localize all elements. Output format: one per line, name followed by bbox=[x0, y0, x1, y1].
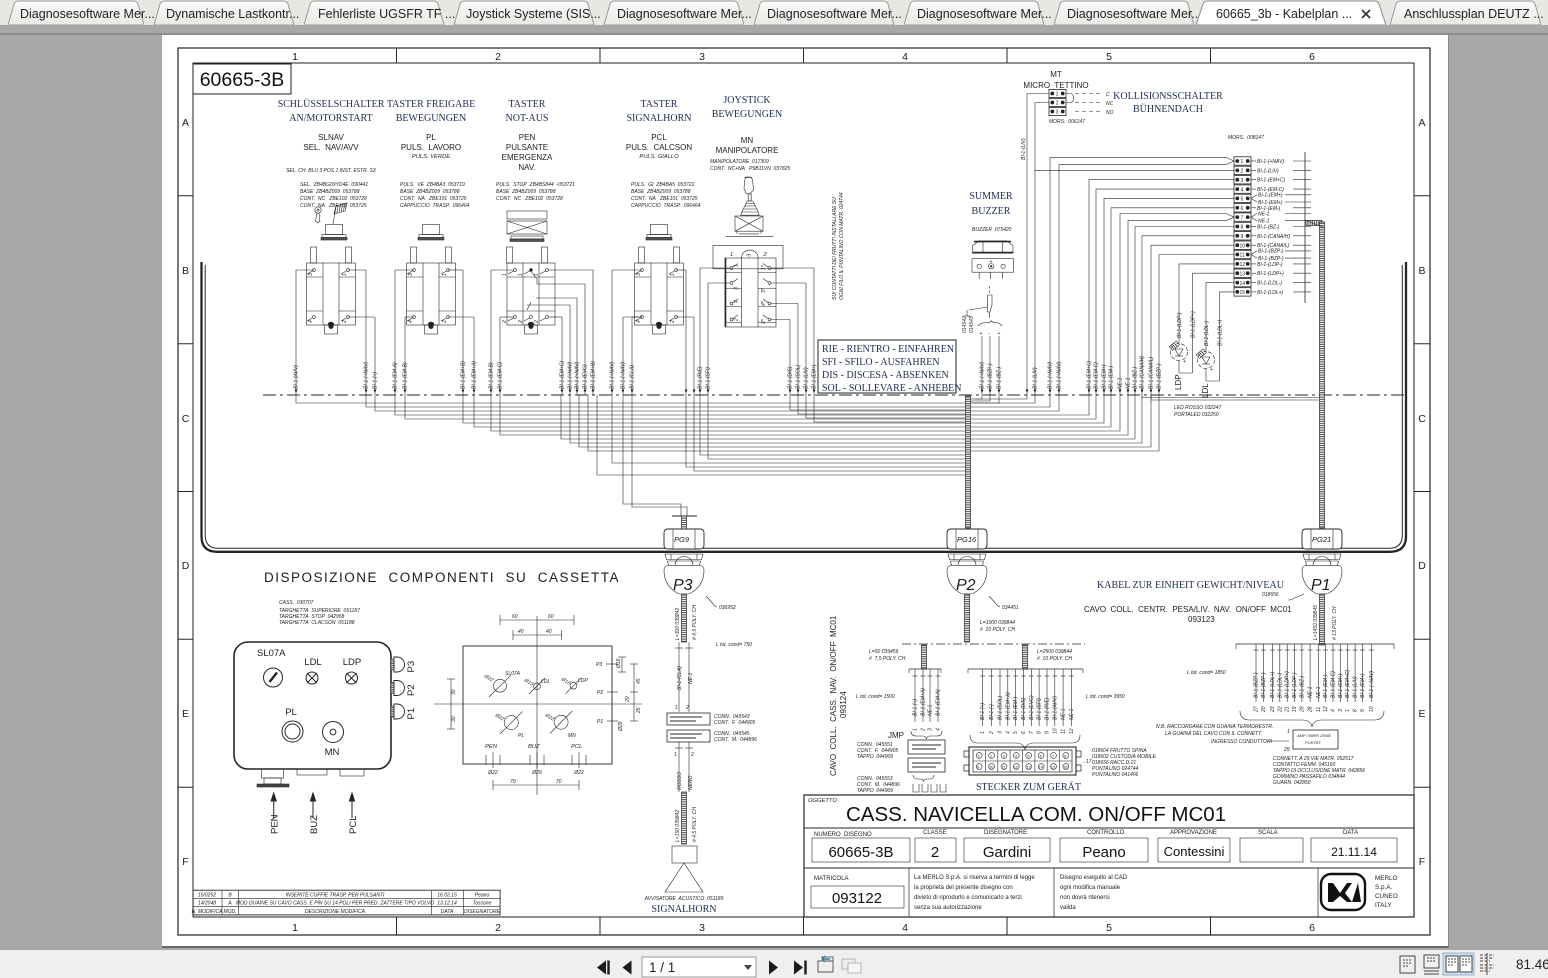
svg-text:BI-1-(EM+C): BI-1-(EM+C) bbox=[1345, 669, 1351, 698]
svg-text:2: 2 bbox=[690, 752, 694, 758]
svg-text:12: 12 bbox=[1323, 706, 1329, 712]
svg-text:2: 2 bbox=[342, 320, 348, 324]
revision table bbox=[193, 890, 500, 915]
svg-text:L tot. cond= 1850: L tot. cond= 1850 bbox=[1187, 670, 1226, 676]
svg-text:CAPPUCCIO TRASP. 096464: CAPPUCCIO TRASP. 096464 bbox=[631, 203, 701, 209]
svg-text:DESCRIZIONE MODIFICA: DESCRIZIONE MODIFICA bbox=[305, 909, 366, 915]
svg-text:PCL: PCL bbox=[348, 816, 359, 834]
svg-text:valida: valida bbox=[1060, 905, 1076, 911]
svg-text:BI-1-(+NAV): BI-1-(+NAV) bbox=[1257, 159, 1284, 165]
svg-text:NE-1: NE-1 bbox=[928, 704, 934, 716]
svg-text:1: 1 bbox=[442, 273, 448, 276]
svg-text:BI-1-(BZ-): BI-1-(BZ-) bbox=[1257, 225, 1280, 231]
svg-text:1: 1 bbox=[674, 752, 677, 758]
PG16 cable bbox=[966, 396, 971, 528]
next page button bbox=[769, 961, 778, 975]
svg-text:F: F bbox=[1419, 856, 1425, 868]
tab 2 bbox=[154, 1, 294, 25]
svg-text:1: 1 bbox=[978, 753, 981, 758]
svg-text:MORS. 006147: MORS. 006147 bbox=[1049, 119, 1085, 125]
svg-text:2: 2 bbox=[921, 728, 927, 732]
svg-text:15/0252: 15/0252 bbox=[198, 892, 216, 898]
svg-text:BI-1-(BZ-): BI-1-(BZ-) bbox=[1133, 366, 1139, 389]
svg-text:P1: P1 bbox=[1311, 577, 1331, 594]
svg-text:10: 10 bbox=[1052, 728, 1058, 734]
svg-text:BI-1-(LIV): BI-1-(LIV) bbox=[1021, 138, 1027, 160]
bottom tabs bbox=[257, 769, 364, 787]
P3 wire pair bbox=[675, 642, 693, 712]
svg-text:NOT-AUS: NOT-AUS bbox=[506, 113, 549, 124]
legend box RIE/SFI/DIS/SOL bbox=[818, 340, 961, 394]
svg-text:BI-1-(BZP-): BI-1-(BZP-) bbox=[988, 363, 994, 389]
svg-text:1: 1 bbox=[1345, 709, 1351, 712]
key switch S1 SLNAV header bbox=[278, 98, 385, 209]
svg-text:MOD GUAINE SU CAVO CASS. E PIN: MOD GUAINE SU CAVO CASS. E PIN SU 14 POL… bbox=[236, 901, 434, 907]
svg-text:BI-1-(EM-B): BI-1-(EM-B) bbox=[489, 362, 495, 389]
svg-text:Joystick Systeme (SIS...: Joystick Systeme (SIS... bbox=[466, 7, 601, 21]
P2 junction bbox=[902, 643, 1085, 645]
svg-text:D: D bbox=[182, 560, 190, 572]
svg-text:4: 4 bbox=[902, 51, 908, 63]
svg-text:Peano: Peano bbox=[475, 892, 490, 898]
svg-text:LED ROSSO 032247: LED ROSSO 032247 bbox=[1174, 405, 1221, 411]
svg-text:SEL. CH. BLU 3 POS 1 INST. EST: SEL. CH. BLU 3 POS 1 INST. ESTR. SX bbox=[286, 168, 377, 174]
wire to PG9 bbox=[693, 317, 695, 395]
svg-text:KABEL ZUR EINHEIT GEWICHT/NIVE: KABEL ZUR EINHEIT GEWICHT/NIVEAU bbox=[1097, 580, 1285, 591]
svg-text:2: 2 bbox=[442, 320, 448, 324]
svg-text:4: 4 bbox=[734, 300, 740, 303]
svg-text:PULS. VE ZB4BA3 053719: PULS. VE ZB4BA3 053719 bbox=[400, 182, 465, 188]
svg-text:BI-1-(EM+C): BI-1-(EM+C) bbox=[1087, 360, 1093, 389]
svg-text:Ø22: Ø22 bbox=[543, 712, 555, 723]
svg-text:P3: P3 bbox=[406, 661, 417, 673]
svg-text:20: 20 bbox=[1261, 706, 1267, 713]
svg-text:CASS. 030707: CASS. 030707 bbox=[279, 600, 314, 606]
svg-text:1: 1 bbox=[1287, 729, 1290, 735]
emergency stop S3 PEN header bbox=[496, 99, 575, 202]
svg-text:1: 1 bbox=[670, 273, 676, 276]
svg-text:4: 4 bbox=[1241, 187, 1244, 193]
active tab 60665_3b bbox=[1196, 1, 1386, 25]
JMP connector labels bbox=[908, 740, 945, 772]
svg-text:BI-1-(LDL+): BI-1-(LDL+) bbox=[1270, 671, 1276, 698]
svg-text:BI-1-(LDP-): BI-1-(LDP-) bbox=[1257, 262, 1283, 268]
svg-text:Ø29: Ø29 bbox=[531, 770, 542, 776]
svg-text:4: 4 bbox=[1015, 753, 1018, 758]
sheet border frame outer bbox=[178, 48, 1430, 935]
title block bbox=[804, 795, 1414, 917]
svg-text:APPROVAZIONE: APPROVAZIONE bbox=[1170, 830, 1217, 836]
svg-text:JMP: JMP bbox=[888, 731, 904, 740]
wire to PG9 bbox=[685, 270, 687, 395]
svg-text:29: 29 bbox=[1299, 706, 1305, 713]
svg-text:1: 1 bbox=[913, 728, 919, 731]
wire MT pin1 down BI-1-(LIV) bbox=[1027, 94, 1049, 396]
svg-text:NAV.: NAV. bbox=[518, 163, 535, 172]
svg-text:BI-1-(EM+): BI-1-(EM+) bbox=[1102, 364, 1108, 389]
routing elbows below cut line bbox=[296, 395, 1319, 516]
joystick wires left bbox=[699, 268, 701, 395]
S1 button bbox=[321, 225, 347, 241]
svg-text:BI-1-(DIS): BI-1-(DIS) bbox=[1021, 697, 1027, 720]
PG9 cable tail bbox=[672, 516, 697, 529]
svg-text:Ø22: Ø22 bbox=[487, 770, 498, 776]
LED wires to strip rows 12-15 bbox=[1179, 264, 1234, 349]
svg-text:L=1450 039845: L=1450 039845 bbox=[1313, 605, 1319, 640]
pushbutton contact block S2 bbox=[407, 247, 456, 325]
svg-text:60665-3B: 60665-3B bbox=[828, 844, 893, 861]
svg-text:CONTROLLO: CONTROLLO bbox=[1087, 830, 1125, 836]
svg-text:2: 2 bbox=[495, 51, 501, 63]
buzzer symbol bbox=[972, 241, 1014, 279]
svg-text:3: 3 bbox=[747, 253, 753, 257]
svg-text:70: 70 bbox=[556, 779, 562, 785]
svg-text:4: 4 bbox=[408, 320, 414, 323]
svg-text:P2: P2 bbox=[597, 690, 603, 696]
svg-text:27: 27 bbox=[1254, 706, 1260, 713]
svg-text:LA GUAINA DEL CAVO CON IL CONN: LA GUAINA DEL CAVO CON IL CONNETT. bbox=[1165, 731, 1262, 737]
svg-text:BUZ: BUZ bbox=[528, 744, 540, 750]
svg-text:10: 10 bbox=[1369, 706, 1375, 712]
svg-text:PG21: PG21 bbox=[1312, 535, 1331, 544]
joystick MN header bbox=[710, 95, 790, 172]
svg-text:BI-1-(CANA/H): BI-1-(CANA/H) bbox=[1257, 234, 1290, 240]
svg-text:3: 3 bbox=[308, 273, 314, 276]
svg-text:N. MODIFICA: N. MODIFICA bbox=[192, 909, 223, 915]
svg-text:4: 4 bbox=[1005, 731, 1011, 734]
wire BI-1-(EM-B) bbox=[404, 317, 406, 395]
svg-text:25: 25 bbox=[636, 707, 642, 714]
svg-text:28: 28 bbox=[1308, 706, 1314, 713]
svg-text:TASTER: TASTER bbox=[509, 99, 546, 110]
svg-text:13: 13 bbox=[1026, 764, 1031, 769]
svg-text:6: 6 bbox=[1021, 731, 1027, 734]
svg-text:PULS. CALCSON: PULS. CALCSON bbox=[626, 143, 692, 152]
svg-text:BI-1-(LDL+): BI-1-(LDL+) bbox=[1218, 319, 1224, 346]
svg-text:11: 11 bbox=[1240, 253, 1245, 259]
svg-text:5: 5 bbox=[1106, 922, 1112, 934]
svg-text:→17: →17 bbox=[1081, 759, 1092, 765]
P3 connector labels bbox=[667, 713, 710, 742]
svg-text:2: 2 bbox=[931, 844, 939, 861]
svg-text:034451: 034451 bbox=[1002, 605, 1019, 611]
svg-text:# 10 POLY. CH: # 10 POLY. CH bbox=[980, 627, 1015, 633]
svg-text:CAVO COLL. CENTR. PESA/LIV.: CAVO COLL. CENTR. PESA/LIV. NAV. ON/OFF … bbox=[1084, 605, 1292, 614]
svg-text:L=150 039842: L=150 039842 bbox=[675, 810, 681, 842]
svg-text:CASS. NAVICELLA COM. ON/OFF MC: CASS. NAVICELLA COM. ON/OFF MC01 bbox=[846, 803, 1226, 826]
svg-text:2: 2 bbox=[502, 320, 508, 324]
svg-text:DATA: DATA bbox=[1343, 830, 1358, 836]
svg-text:P2: P2 bbox=[406, 684, 417, 696]
wire MT pin2 down bbox=[1035, 103, 1049, 171]
bottom toolbar bbox=[0, 950, 1548, 978]
svg-text:PUNTALINO 041406: PUNTALINO 041406 bbox=[1092, 772, 1139, 778]
wire BI-1-(CLA) bbox=[631, 317, 633, 395]
svg-text:60665-3B: 60665-3B bbox=[200, 69, 285, 91]
svg-text:C: C bbox=[182, 413, 190, 425]
svg-text:BI-1-(EM+): BI-1-(EM+) bbox=[1360, 673, 1366, 698]
svg-text:P1: P1 bbox=[406, 708, 417, 720]
svg-text:PCL: PCL bbox=[651, 133, 667, 142]
tab 8 bbox=[1054, 1, 1194, 25]
svg-text:2: 2 bbox=[989, 731, 995, 735]
svg-text:TAPPO 044909: TAPPO 044909 bbox=[857, 788, 893, 794]
next view icon (disabled) bbox=[842, 959, 861, 973]
svg-text:16: 16 bbox=[1063, 764, 1068, 769]
stecker branch 12 wires bbox=[968, 669, 1083, 726]
wire BI-1-(EM+B) bbox=[462, 270, 464, 395]
svg-text:23: 23 bbox=[1270, 706, 1276, 713]
field labels bbox=[814, 830, 1358, 882]
svg-text:SFI - SFILO - AUSFAHREN: SFI - SFILO - AUSFAHREN bbox=[822, 357, 940, 368]
svg-text:BI-1-(+NAV): BI-1-(+NAV) bbox=[575, 362, 581, 389]
svg-text:SUI CONTATTI DEI FRUTTI INSTAL: SUI CONTATTI DEI FRUTTI INSTALLARE SU bbox=[832, 197, 838, 300]
svg-text:P3: P3 bbox=[673, 577, 693, 594]
svg-text:Diagnosesoftware Mer...: Diagnosesoftware Mer... bbox=[20, 7, 155, 21]
svg-text:BUZ: BUZ bbox=[309, 815, 320, 834]
svg-text:BEWEGUNGEN: BEWEGUNGEN bbox=[396, 113, 467, 124]
P3 cable bbox=[682, 594, 687, 642]
svg-text:CONT. NA ZBE101 053725: CONT. NA ZBE101 053725 bbox=[300, 203, 367, 209]
svg-text:OGGETTO: OGGETTO bbox=[808, 798, 837, 804]
svg-text:BI-1-(EM-A): BI-1-(EM-A) bbox=[936, 689, 942, 716]
tab 6 bbox=[754, 1, 894, 25]
svg-text:9: 9 bbox=[977, 764, 980, 769]
svg-text:LDP: LDP bbox=[343, 657, 361, 668]
svg-text:BASE ZB4BZ009 053788: BASE ZB4BZ009 053788 bbox=[631, 189, 691, 195]
svg-text:BI-1-(EM-B): BI-1-(EM-B) bbox=[403, 362, 409, 389]
svg-text:BI-1-(LDL-): BI-1-(LDL-) bbox=[1204, 321, 1210, 346]
wire BI-1-(EM-A) bbox=[394, 270, 396, 395]
svg-text:4: 4 bbox=[636, 320, 642, 323]
svg-text:81.46: 81.46 bbox=[1516, 957, 1548, 972]
svg-text:Diagnosesoftware Mer...: Diagnosesoftware Mer... bbox=[917, 7, 1052, 21]
svg-text:036952: 036952 bbox=[719, 605, 736, 611]
wire BI-1-(+NAV) bbox=[569, 305, 571, 395]
svg-text:BI-1-(RIE): BI-1-(RIE) bbox=[1045, 697, 1051, 720]
svg-text:C: C bbox=[1106, 92, 1110, 98]
svg-text:BI-1-(BZP-): BI-1-(BZP-) bbox=[1258, 249, 1284, 255]
frame row letters bbox=[182, 117, 1427, 868]
svg-text:PL: PL bbox=[426, 133, 436, 142]
svg-text:NUMERO DISEGNO: NUMERO DISEGNO bbox=[814, 832, 872, 838]
svg-text:PULSANTE: PULSANTE bbox=[506, 143, 548, 152]
P1 fan 16 wires bbox=[1236, 644, 1394, 702]
svg-text:Gardini: Gardini bbox=[983, 844, 1031, 861]
svg-text:2: 2 bbox=[518, 320, 524, 324]
mushroom button bbox=[507, 211, 547, 242]
wire BI-1-(EM+B) bbox=[592, 270, 594, 395]
svg-text:BI-1-(CLA): BI-1-(CLA) bbox=[677, 666, 683, 690]
svg-text:La MERLO S.p.A. si riserva a t: La MERLO S.p.A. si riserva a termini di … bbox=[914, 875, 1035, 881]
svg-text:DIS - DISCESA - ABSENKEN: DIS - DISCESA - ABSENKEN bbox=[822, 370, 949, 381]
browser tab bar bbox=[0, 0, 1548, 25]
svg-text:# 7,5 POLY. CH: # 7,5 POLY. CH bbox=[869, 656, 906, 662]
svg-text:BI-1-(+NAV): BI-1-(+NAV) bbox=[621, 362, 627, 389]
svg-text:A: A bbox=[182, 117, 189, 129]
svg-text:BI-1-(LIV): BI-1-(LIV) bbox=[1353, 676, 1359, 698]
svg-text:014543: 014543 bbox=[969, 316, 975, 333]
svg-text:BI-1-(BZ-): BI-1-(BZ-) bbox=[997, 366, 1003, 389]
joystick handle symbol bbox=[726, 177, 773, 237]
svg-text:14/2048: 14/2048 bbox=[198, 901, 216, 907]
svg-text:BI-1-(LDL+): BI-1-(LDL+) bbox=[1257, 290, 1284, 296]
svg-text:1: 1 bbox=[734, 264, 740, 267]
svg-text:LDL: LDL bbox=[541, 679, 550, 685]
svg-text:9: 9 bbox=[1241, 234, 1244, 240]
svg-text:21.11.14: 21.11.14 bbox=[1331, 845, 1377, 859]
svg-text:MN: MN bbox=[568, 733, 576, 739]
svg-text:BUZZER 075420: BUZZER 075420 bbox=[972, 227, 1012, 233]
svg-text:1: 1 bbox=[1056, 92, 1059, 98]
svg-text:BI-1-(+NAV): BI-1-(+NAV) bbox=[980, 362, 986, 389]
svg-text:BI-1-(LIV): BI-1-(LIV) bbox=[804, 367, 810, 389]
svg-text:1: 1 bbox=[675, 705, 678, 711]
svg-text:CONT. NC+NA P9B11VN 037825: CONT. NC+NA P9B11VN 037825 bbox=[710, 166, 790, 172]
svg-text:BI-1-(LDL-): BI-1-(LDL-) bbox=[1257, 281, 1282, 287]
svg-text:9: 9 bbox=[1045, 731, 1051, 734]
svg-text:Disegno eseguito al CAD: Disegno eseguito al CAD bbox=[1060, 875, 1128, 881]
svg-text:NE-1: NE-1 bbox=[1258, 219, 1270, 225]
view mode icons right bbox=[1400, 953, 1494, 975]
svg-text:2: 2 bbox=[534, 320, 540, 324]
svg-text:PULS. LAVORO: PULS. LAVORO bbox=[401, 143, 461, 152]
Merlo logo bbox=[1321, 874, 1365, 910]
svg-text:BI-1-(+NAV): BI-1-(+NAV) bbox=[1369, 671, 1375, 698]
tab 5 bbox=[604, 1, 744, 25]
svg-text:3: 3 bbox=[408, 273, 414, 276]
svg-text:1: 1 bbox=[1241, 159, 1244, 165]
svg-text:ogni modifica manuale: ogni modifica manuale bbox=[1060, 885, 1121, 891]
svg-text:ROSSO: ROSSO bbox=[677, 772, 683, 790]
svg-text:N.B. RACCORDARE CON GUAINA TER: N.B. RACCORDARE CON GUAINA TERMORESTR. bbox=[1156, 724, 1273, 730]
svg-text:BI-1-(LIV): BI-1-(LIV) bbox=[1257, 168, 1279, 174]
prev page button bbox=[623, 961, 632, 975]
svg-text:29: 29 bbox=[1283, 747, 1290, 753]
svg-text:BI-1-(CANA/H): BI-1-(CANA/H) bbox=[1140, 356, 1146, 389]
svg-text:2: 2 bbox=[670, 320, 676, 324]
svg-text:BI-1-(+NAV): BI-1-(+NAV) bbox=[1048, 362, 1054, 389]
svg-text:10: 10 bbox=[989, 764, 994, 769]
svg-text:DISEGNATORE: DISEGNATORE bbox=[984, 830, 1027, 836]
JMP branch 4 wires bbox=[909, 669, 941, 722]
svg-text:L tot. cond= 1500: L tot. cond= 1500 bbox=[856, 694, 895, 700]
svg-text:L=1000 039844: L=1000 039844 bbox=[980, 620, 1015, 626]
svg-text:CONT. NC ZBE102 053728: CONT. NC ZBE102 053728 bbox=[496, 196, 563, 202]
field boxes bbox=[811, 838, 1397, 908]
main cable to PG21 bbox=[1306, 221, 1325, 529]
svg-text:non dovrà ritenersi: non dovrà ritenersi bbox=[1060, 895, 1110, 901]
arrows PEN BUZ PCL bbox=[271, 793, 276, 818]
svg-text:4: 4 bbox=[308, 320, 314, 323]
svg-text:BI-1-(EM-A): BI-1-(EM-A) bbox=[393, 362, 399, 389]
svg-text:divieto di riprodurlo e comuni: divieto di riprodurlo e comunicarlo a te… bbox=[914, 895, 1022, 901]
JMP brace bbox=[911, 731, 942, 739]
hole MN bbox=[550, 711, 572, 734]
wire BI-1-(EM-B) bbox=[490, 270, 492, 395]
svg-text:+: + bbox=[1183, 359, 1186, 365]
svg-text:Fehlerliste UGSFR TF ...: Fehlerliste UGSFR TF ... bbox=[318, 7, 455, 21]
svg-text:Ø22: Ø22 bbox=[482, 673, 494, 684]
svg-text:BI-1-(+): BI-1-(+) bbox=[913, 699, 919, 716]
key selector bbox=[264, 668, 283, 687]
svg-text:AVVISATORE ACUSTICO 051189: AVVISATORE ACUSTICO 051189 bbox=[644, 896, 724, 902]
svg-text:16.02.15: 16.02.15 bbox=[437, 892, 457, 898]
svg-text:BI-1-(LDP-): BI-1-(LDP-) bbox=[1177, 312, 1183, 338]
svg-text:Anschlussplan DEUTZ ...: Anschlussplan DEUTZ ... bbox=[1404, 7, 1544, 21]
control panel SL07A bbox=[234, 642, 391, 769]
wire BI-1-(+NAV) bbox=[576, 298, 578, 395]
svg-text:BI-1-(EM-C): BI-1-(EM-C) bbox=[1094, 362, 1100, 389]
svg-text:TARGHETTA CLACSON 051188: TARGHETTA CLACSON 051188 bbox=[279, 620, 355, 626]
key symbol bbox=[315, 207, 321, 223]
svg-text:3: 3 bbox=[1003, 753, 1006, 758]
joystick wires right bbox=[813, 268, 815, 395]
svg-text:NO: NO bbox=[1106, 110, 1114, 116]
svg-text:BI-1-(-): BI-1-(-) bbox=[989, 704, 995, 720]
svg-text:BI-1-(LDP+): BI-1-(LDP+) bbox=[1257, 271, 1284, 277]
svg-text:5: 5 bbox=[1013, 731, 1019, 734]
cable sheath boundary U-shape bbox=[202, 262, 1407, 552]
svg-text:2: 2 bbox=[763, 252, 768, 258]
svg-text:8: 8 bbox=[1353, 709, 1359, 712]
svg-text:+: + bbox=[990, 260, 993, 266]
svg-text:12: 12 bbox=[1014, 764, 1019, 769]
svg-text:20: 20 bbox=[625, 696, 631, 703]
svg-text:Tossone: Tossone bbox=[473, 901, 492, 907]
svg-text:B: B bbox=[182, 265, 189, 277]
wire BI-1-(EM-C) bbox=[499, 317, 501, 395]
svg-text:BI-1-(AVV): BI-1-(AVV) bbox=[294, 365, 300, 389]
horn cable bbox=[682, 792, 687, 844]
svg-text:BI-1-(EVG): BI-1-(EVG) bbox=[1029, 695, 1035, 720]
svg-text:BI-1-(EM-): BI-1-(EM-) bbox=[1323, 674, 1329, 698]
svg-text:5: 5 bbox=[1027, 753, 1030, 758]
tab 10 bbox=[1390, 1, 1541, 25]
svg-text:L=2500 039844: L=2500 039844 bbox=[1037, 649, 1072, 655]
svg-text:# 4,5 POLY. CH: # 4,5 POLY. CH bbox=[692, 605, 698, 640]
svg-text:PULS. GIALLO: PULS. GIALLO bbox=[639, 154, 679, 160]
P1 cable bbox=[1320, 594, 1325, 645]
svg-text:SOL - SOLLEVARE - ANHEBEN: SOL - SOLLEVARE - ANHEBEN bbox=[822, 383, 961, 394]
svg-text:7: 7 bbox=[1052, 753, 1055, 758]
svg-text:NERO: NERO bbox=[688, 775, 694, 790]
svg-text:12: 12 bbox=[1069, 728, 1075, 734]
svg-text:22: 22 bbox=[1277, 706, 1283, 713]
svg-text:E: E bbox=[1418, 708, 1425, 720]
svg-text:A: A bbox=[227, 901, 232, 907]
svg-text:BI-1-(EM-): BI-1-(EM-) bbox=[1109, 365, 1115, 389]
svg-text:60665_3b - Kabelplan ...: 60665_3b - Kabelplan ... bbox=[1216, 7, 1352, 21]
svg-text:BI-1-(EM+B): BI-1-(EM+B) bbox=[461, 361, 467, 389]
svg-text:4: 4 bbox=[902, 922, 908, 934]
svg-text:DISEGNATORE: DISEGNATORE bbox=[464, 909, 501, 915]
svg-text:PL: PL bbox=[518, 733, 524, 739]
svg-text:PG9: PG9 bbox=[674, 535, 690, 544]
svg-text:NE-1: NE-1 bbox=[1061, 708, 1067, 720]
svg-text:CONT. NA ZBE101 053725: CONT. NA ZBE101 053725 bbox=[400, 196, 467, 202]
svg-text:8: 8 bbox=[1241, 225, 1244, 231]
svg-text:BI-1-(CLA): BI-1-(CLA) bbox=[630, 365, 636, 389]
svg-text:Dynamische Lastkontr...: Dynamische Lastkontr... bbox=[166, 7, 299, 21]
svg-text:BI-1-(EM-): BI-1-(EM-) bbox=[1013, 696, 1019, 720]
svg-text:Diagnosesoftware Mer...: Diagnosesoftware Mer... bbox=[767, 7, 902, 21]
S3 three-pole contact block bbox=[507, 247, 556, 325]
svg-text:# 10 POLY. CH: # 10 POLY. CH bbox=[1037, 656, 1072, 662]
svg-text:P3: P3 bbox=[596, 662, 602, 668]
svg-text:PG16: PG16 bbox=[957, 535, 977, 544]
svg-text:BI-1-(EM-C): BI-1-(EM-C) bbox=[1331, 671, 1337, 698]
